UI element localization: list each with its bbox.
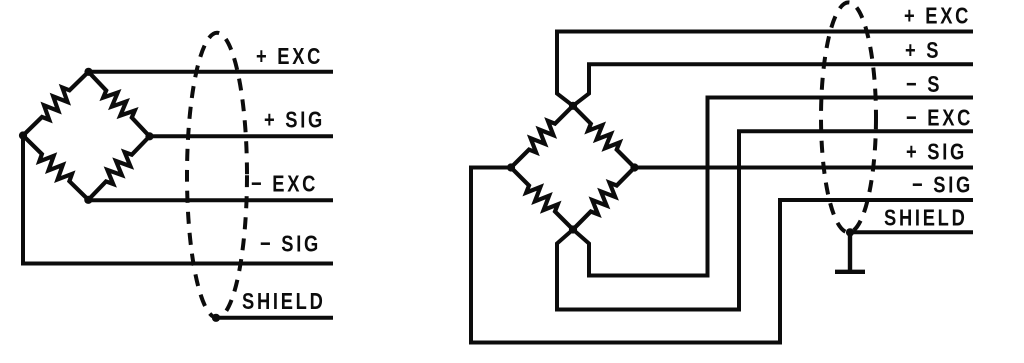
ground symbol (shield earth): [835, 232, 865, 271]
node SHIELD dot (right): [846, 228, 854, 236]
resistor R5 (right bridge, upper-left arm): [511, 106, 573, 168]
svg-text:SHIELD: SHIELD: [242, 289, 326, 315]
wire SHIELD (left): [216, 316, 333, 320]
resistor R1 (left bridge, upper-left arm): [23, 72, 89, 136]
cable sheath ellipse (left, dashed): [187, 33, 247, 318]
wire +EXC (left): [89, 70, 334, 74]
svg-text:− EXC: − EXC: [906, 105, 973, 131]
wire -SIG (left): [23, 136, 333, 264]
svg-text:+ EXC: + EXC: [904, 3, 971, 29]
svg-text:− SIG: − SIG: [912, 172, 973, 198]
wire +S (right): [573, 64, 973, 106]
resistor R3 (left bridge, lower-left arm): [23, 136, 88, 200]
svg-text:− SIG: − SIG: [260, 231, 321, 257]
svg-text:+ S: + S: [905, 38, 941, 64]
resistor R2 (left bridge, upper-right arm): [89, 72, 150, 137]
node excitation junction (right bridge top): [569, 102, 577, 110]
node +EXC junction (left bridge top): [84, 68, 92, 76]
wire +SIG (right): [635, 166, 974, 170]
node +SIG junction (right bridge right): [630, 163, 638, 171]
node +SIG junction (left bridge right): [145, 132, 153, 140]
cable sheath ellipse (right, dashed): [821, 2, 876, 232]
wire -EXC (left): [88, 198, 333, 202]
wire -EXC (right): [557, 131, 973, 309]
svg-text:+ SIG: + SIG: [906, 139, 967, 165]
svg-text:+ SIG: + SIG: [264, 107, 325, 133]
svg-text:− S: − S: [906, 72, 942, 98]
wire +SIG (left): [150, 134, 334, 138]
svg-text:SHIELD: SHIELD: [884, 205, 968, 231]
node -SIG junction (left bridge left): [19, 131, 27, 139]
svg-text:+ EXC: + EXC: [256, 44, 323, 70]
svg-text:− EXC: − EXC: [251, 171, 318, 197]
node -SIG junction (right bridge left): [507, 163, 515, 171]
resistor R8 (right bridge, lower-right arm): [573, 168, 635, 230]
resistor R7 (right bridge, lower-left arm): [511, 168, 573, 230]
node -EXC junction (left bridge bottom): [84, 196, 92, 204]
wire -SIG (right): [471, 168, 973, 343]
node excitation junction (right bridge bottom): [569, 225, 577, 233]
wire SHIELD (right): [850, 230, 973, 234]
wire +EXC (right): [557, 32, 973, 106]
wire -S (right): [573, 98, 973, 276]
resistor R6 (right bridge, upper-right arm): [573, 106, 635, 168]
node SHIELD dot (left): [212, 314, 220, 322]
resistor R4 (left bridge, lower-right arm): [88, 136, 149, 200]
